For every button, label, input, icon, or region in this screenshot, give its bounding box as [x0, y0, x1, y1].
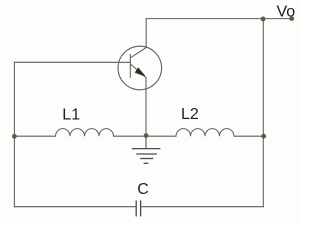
- wire tank left segment: [14, 135, 55, 137]
- node top output junction: [261, 17, 266, 22]
- inductor L1: [56, 129, 114, 137]
- wire bottom left: [14, 206, 136, 208]
- transistor Q1: [118, 46, 162, 90]
- svg-text:L2: L2: [181, 106, 199, 123]
- wire tank middle segment: [114, 135, 147, 137]
- svg-text:L1: L1: [62, 107, 80, 124]
- wire base horizontal: [14, 61, 130, 63]
- wire right rail: [262, 19, 264, 207]
- svg-text:C: C: [137, 181, 149, 198]
- ground: [132, 136, 161, 163]
- wire collector vertical: [145, 19, 147, 48]
- wire tank middle right segment: [146, 135, 176, 137]
- wire top (collector to Vo): [146, 18, 292, 20]
- node Vo terminal: [289, 16, 294, 21]
- wire left rail: [13, 62, 15, 206]
- node right tank junction: [261, 134, 266, 139]
- inductor L2: [176, 129, 234, 137]
- node left tank junction: [12, 134, 17, 139]
- capacitor C: [136, 200, 140, 216]
- wire tank right segment: [234, 135, 263, 137]
- node emitter tank junction: [144, 133, 149, 138]
- wire bottom right: [141, 206, 264, 208]
- svg-text:Vo: Vo: [277, 4, 296, 21]
- wire emitter vertical: [145, 78, 147, 137]
